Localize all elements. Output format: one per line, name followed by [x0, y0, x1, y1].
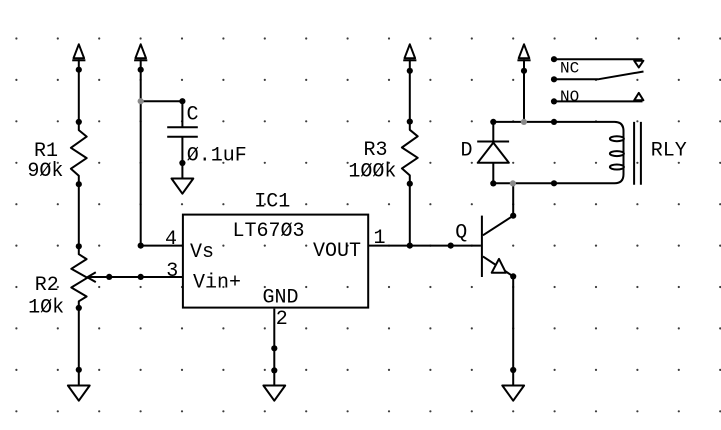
svg-text:D: D — [461, 139, 473, 162]
svg-text:4: 4 — [165, 228, 177, 251]
svg-text:1ØØk: 1ØØk — [348, 161, 396, 184]
svg-text:C: C — [187, 104, 199, 127]
svg-text:LT67Ø3: LT67Ø3 — [233, 220, 305, 243]
svg-text:Ø.1uF: Ø.1uF — [187, 145, 247, 168]
svg-text:Vin+: Vin+ — [193, 272, 241, 295]
svg-text:R2: R2 — [35, 274, 59, 297]
svg-text:R3: R3 — [364, 139, 388, 162]
svg-text:IC1: IC1 — [254, 190, 290, 213]
svg-text:Q: Q — [455, 222, 467, 245]
svg-text:3: 3 — [166, 260, 178, 283]
svg-text:1Øk: 1Øk — [28, 297, 64, 320]
svg-text:NO: NO — [560, 88, 579, 106]
svg-text:VOUT: VOUT — [313, 240, 361, 263]
svg-text:RLY: RLY — [651, 140, 687, 163]
svg-text:Vs: Vs — [190, 241, 214, 264]
svg-text:2: 2 — [276, 308, 288, 331]
svg-text:GND: GND — [263, 286, 299, 309]
svg-text:9Øk: 9Øk — [27, 160, 63, 183]
svg-text:NC: NC — [560, 59, 579, 77]
svg-text:1: 1 — [374, 227, 386, 250]
